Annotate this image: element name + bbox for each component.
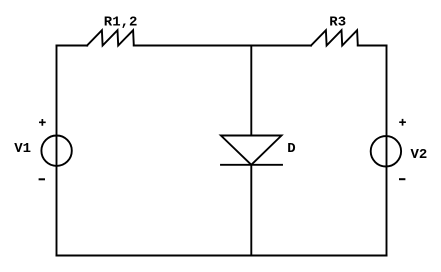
wire left vertical (V1 branch) <box>56 46 58 256</box>
wire right vertical (V2 branch) <box>386 46 388 256</box>
resistor R3 <box>311 30 358 45</box>
svg-text:R1,2: R1,2 <box>104 15 138 31</box>
diode D cathode bar <box>221 164 282 166</box>
wire top: node N1 to R3 <box>251 45 311 47</box>
svg-text:D: D <box>287 141 295 157</box>
V1 minus polarity mark <box>39 178 45 180</box>
wire top: left corner to R1,2 <box>57 45 88 47</box>
wire middle: node N1 to diode anode <box>250 46 252 136</box>
wire top: R1,2 to node N1 <box>134 45 252 47</box>
svg-text:V2: V2 <box>411 147 428 163</box>
V1 plus polarity mark <box>39 119 46 126</box>
diode D triangle (anode) <box>221 136 282 165</box>
wire middle: diode cathode to bottom wire <box>250 165 252 256</box>
V2 plus polarity mark <box>399 119 406 126</box>
source V2 circle <box>371 136 401 166</box>
source V1 circle <box>41 136 71 166</box>
V2 minus polarity mark <box>399 178 405 180</box>
svg-text:V1: V1 <box>14 141 31 157</box>
resistor R1,2 <box>87 30 134 45</box>
wire bottom <box>57 255 387 257</box>
wire top: R3 to right corner <box>358 45 387 47</box>
svg-text:R3: R3 <box>329 14 346 30</box>
